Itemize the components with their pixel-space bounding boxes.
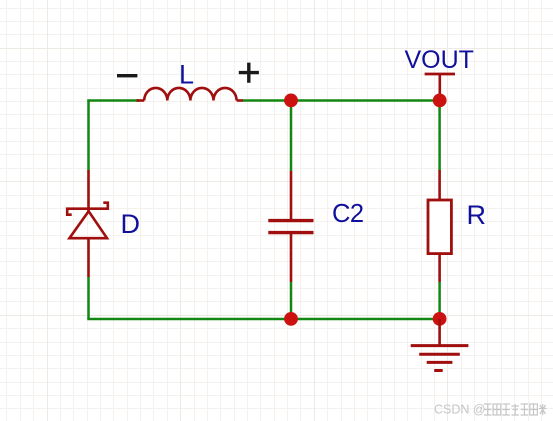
svg-text:D: D (121, 209, 141, 239)
junction dot: node VOUT top-right (433, 94, 447, 108)
polarity minus mark (117, 74, 137, 77)
ground (411, 319, 469, 371)
wire: right vertical upper (junction to R) (438, 101, 441, 171)
wire: inductor output to middle junction (243, 99, 292, 102)
svg-text:C2: C2 (332, 200, 364, 228)
wire: middle vertical upper (junction to C2) (290, 101, 293, 172)
svg-text:R: R (467, 200, 487, 230)
watermark (434, 403, 547, 417)
svg-text:L: L (179, 60, 194, 90)
port VOUT (bar and stem) (425, 74, 455, 101)
wire: left vertical lower (87, 277, 90, 319)
junction dot: ground rail right (433, 312, 447, 326)
polarity plus mark (239, 63, 259, 83)
wire: right vertical lower (R to bottom rail) (438, 282, 441, 319)
resistor R (428, 170, 451, 282)
inductor L (137, 88, 244, 101)
wire: top rail left segment (corner to inductor pin) (87, 99, 139, 101)
wire: middle vertical lower (C2 to bottom rail) (290, 282, 293, 319)
wire: bottom rail (87, 318, 439, 321)
wire: left vertical upper (87, 101, 90, 171)
zener diode D (67, 170, 108, 277)
capacitor C2 (268, 171, 313, 282)
wire: middle junction to right junction (top rail) (291, 99, 440, 102)
svg-text:VOUT: VOUT (405, 46, 474, 74)
junction dot: node VOUT top-middle (284, 94, 298, 108)
svg-text:CSDN @: CSDN @ (434, 403, 486, 417)
junction dot: ground rail middle (284, 312, 298, 326)
